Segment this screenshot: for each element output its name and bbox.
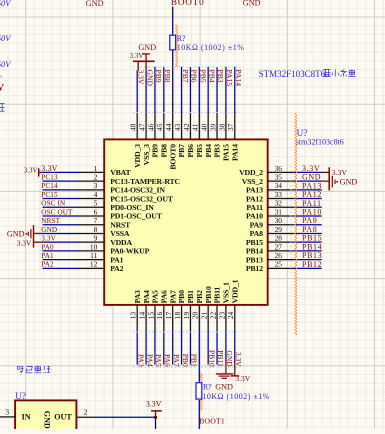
title CJK: zui xiao xi tong xyxy=(324,70,331,77)
pin 33 PA12 (right) wire+stub xyxy=(268,198,295,200)
svg-text:PA3: PA3 xyxy=(136,354,145,367)
svg-text:PB12: PB12 xyxy=(302,260,322,269)
svg-text:PA8: PA8 xyxy=(302,225,317,234)
pin 48 VDD_3 (top) wire+stub xyxy=(136,70,138,113)
svg-text:18: 18 xyxy=(173,312,182,320)
svg-text:21: 21 xyxy=(200,312,209,320)
pin 20 PB2 (bottom) wire+stub xyxy=(198,305,200,330)
svg-text:30: 30 xyxy=(275,216,283,225)
pin 7 NRST (left) wire+stub xyxy=(43,224,79,226)
svg-text:PB8: PB8 xyxy=(160,144,169,158)
op part: MCU body U? STM32F103C8T6 xyxy=(104,139,268,305)
svg-text:PC13-TAMPER-RTC: PC13-TAMPER-RTC xyxy=(110,177,180,186)
orange marker line (right pins) xyxy=(294,113,296,335)
svg-text:3.3V: 3.3V xyxy=(136,70,145,85)
svg-text:PA5: PA5 xyxy=(151,290,160,303)
svg-text:VSS_1: VSS_1 xyxy=(222,282,231,303)
svg-text:3.3V: 3.3V xyxy=(41,235,56,243)
svg-text:22: 22 xyxy=(208,312,217,320)
svg-text:39: 39 xyxy=(208,123,217,131)
svg-text:VDD_2: VDD_2 xyxy=(239,168,263,177)
pin 44 BOOT0 (top) wire+stub xyxy=(172,7,174,35)
svg-text:PA9: PA9 xyxy=(250,220,263,229)
svg-text:PA12: PA12 xyxy=(302,190,322,199)
dotted guide line (right labels) xyxy=(290,166,292,273)
svg-text:PC14-OSC32_IN: PC14-OSC32_IN xyxy=(110,186,165,195)
svg-text:GND: GND xyxy=(145,70,154,87)
svg-text:PA8: PA8 xyxy=(250,229,263,238)
pin 37 PA14 (top) wire+stub xyxy=(234,67,236,113)
svg-text:PB10: PB10 xyxy=(207,350,216,367)
svg-text:PB13: PB13 xyxy=(302,251,322,260)
dotted guide line (top wires) xyxy=(133,66,240,68)
svg-text:GND: GND xyxy=(215,383,233,392)
pin 1 VBAT (left) wire+stub xyxy=(43,171,79,173)
svg-text:PC13: PC13 xyxy=(41,174,58,182)
svg-text:3.3V: 3.3V xyxy=(332,168,348,177)
svg-text:PB13: PB13 xyxy=(246,255,263,264)
pin 24 VDD_1 (bottom) wire+stub xyxy=(234,305,236,330)
svg-text:29: 29 xyxy=(275,225,283,234)
svg-text:5: 5 xyxy=(94,199,98,208)
svg-text:PB1: PB1 xyxy=(190,354,199,367)
svg-text:NRST: NRST xyxy=(110,220,131,229)
svg-text:2: 2 xyxy=(84,408,88,417)
svg-text:37: 37 xyxy=(226,123,235,131)
svg-text:3.3V: 3.3V xyxy=(302,164,320,173)
svg-text:GND: GND xyxy=(43,411,52,429)
svg-text:PB3: PB3 xyxy=(213,144,222,158)
svg-text:43: 43 xyxy=(173,123,182,131)
svg-text:GND: GND xyxy=(86,0,104,8)
svg-text:BOOT0: BOOT0 xyxy=(168,144,177,170)
pin 38 PA15 (top) wire+stub xyxy=(225,67,227,113)
svg-text:VSS_2: VSS_2 xyxy=(242,177,263,186)
svg-text:46: 46 xyxy=(146,123,155,131)
svg-text:OUT: OUT xyxy=(54,413,72,422)
svg-text:VSS_3: VSS_3 xyxy=(142,144,151,165)
resistor R1 10K (BOOT0 pull) xyxy=(170,35,176,50)
power port GND (right) xyxy=(331,176,333,188)
power port 3.3V (regulator out) xyxy=(155,411,157,417)
orange marker (top resistor) xyxy=(175,25,177,68)
svg-text:PA7: PA7 xyxy=(172,354,181,367)
svg-text:3.3V: 3.3V xyxy=(235,374,250,383)
svg-text:14: 14 xyxy=(137,312,146,320)
pin 26 PB13 (right) wire+stub xyxy=(268,259,295,261)
svg-text:PA6: PA6 xyxy=(160,290,169,303)
svg-text:15: 15 xyxy=(146,312,155,320)
svg-text:PA2: PA2 xyxy=(41,261,54,269)
pin 2 PC13-TAMPER-RTC (left) wire+stub xyxy=(43,180,79,182)
svg-text:3: 3 xyxy=(94,181,98,190)
svg-text:16: 16 xyxy=(155,312,164,320)
pin 17 PA7 (bottom) wire+stub xyxy=(172,305,174,330)
svg-text:10KΩ (1002) ±1%: 10KΩ (1002) ±1% xyxy=(202,392,270,401)
pin 15 PA5 (bottom) wire+stub xyxy=(154,305,156,330)
pin 12 PA2 (left) wire+stub xyxy=(43,267,79,269)
svg-text:36: 36 xyxy=(275,164,283,173)
svg-text:GND: GND xyxy=(243,0,261,8)
svg-text:31: 31 xyxy=(275,207,283,216)
svg-text:3.3V: 3.3V xyxy=(234,352,243,367)
svg-text:2: 2 xyxy=(94,173,98,182)
svg-text:PB12: PB12 xyxy=(246,264,263,273)
pin 36 VDD_2 (right) wire+stub xyxy=(268,171,295,173)
pin 40 PB4 (top) wire+stub xyxy=(207,67,209,113)
regulator body xyxy=(15,400,76,433)
svg-text:PB4: PB4 xyxy=(207,70,216,83)
svg-text:R?: R? xyxy=(203,382,212,391)
svg-text:8: 8 xyxy=(94,225,98,234)
svg-text:PA6: PA6 xyxy=(163,354,172,367)
pin 35 VSS_2 (right) wire+stub xyxy=(268,180,295,182)
pin 11 PA1 (left) wire+stub xyxy=(43,259,79,261)
pin 3 PC14-OSC32_IN (left) wire+stub xyxy=(43,189,79,191)
svg-text:OSC OUT: OSC OUT xyxy=(41,208,73,216)
svg-text:26: 26 xyxy=(275,251,283,260)
power port 3.3V (right) xyxy=(328,167,330,190)
svg-text:42: 42 xyxy=(182,123,191,131)
pin 27 PB14 (right) wire+stub xyxy=(268,250,295,252)
svg-text:V: V xyxy=(0,83,4,94)
svg-text:40: 40 xyxy=(200,123,209,131)
svg-text:PA9: PA9 xyxy=(302,216,317,225)
svg-text:STM32F103C8T6: STM32F103C8T6 xyxy=(259,69,326,79)
svg-text:PB6: PB6 xyxy=(190,70,199,83)
svg-text:PA12: PA12 xyxy=(246,194,263,203)
svg-text:PB9: PB9 xyxy=(154,70,163,83)
svg-text:7: 7 xyxy=(94,216,98,225)
wire from regulator OUT xyxy=(96,416,156,418)
svg-text:PA14: PA14 xyxy=(234,70,243,87)
junction xyxy=(154,416,157,419)
svg-text:stm32f103c8t6: stm32f103c8t6 xyxy=(296,137,344,146)
dotted guide line (left of labels) xyxy=(39,166,41,273)
svg-text:28: 28 xyxy=(275,234,283,243)
svg-text:BOOT0: BOOT0 xyxy=(171,0,205,7)
pin 46 PB9 (top) wire+stub xyxy=(154,67,156,113)
svg-text:PA1: PA1 xyxy=(110,255,123,264)
svg-text:3.3V: 3.3V xyxy=(130,52,144,60)
svg-text:PB10: PB10 xyxy=(204,286,213,303)
svg-text:PC15: PC15 xyxy=(41,191,58,199)
svg-text:34: 34 xyxy=(275,181,283,190)
svg-text:GND: GND xyxy=(340,178,358,187)
pin 13 PA3 (bottom) wire+stub xyxy=(136,305,138,330)
pin 22 PB11 (bottom) wire+stub xyxy=(216,305,218,330)
svg-text:10KΩ (1002) ±1%: 10KΩ (1002) ±1% xyxy=(177,43,245,52)
svg-text:12: 12 xyxy=(90,260,98,269)
svg-text:PA2: PA2 xyxy=(110,264,123,273)
dotted guide line (top stubs) xyxy=(133,112,240,114)
pin 23 VSS_1 (bottom) wire+stub xyxy=(225,305,227,330)
pin 42 PB6 (top) wire+stub xyxy=(189,67,191,113)
power port 3.3V (bottom) xyxy=(231,375,240,377)
svg-text:PB15: PB15 xyxy=(246,238,263,247)
svg-text:PA3: PA3 xyxy=(133,290,142,303)
svg-text:32: 32 xyxy=(275,199,283,208)
svg-text:3.3V: 3.3V xyxy=(146,399,162,408)
svg-text:23: 23 xyxy=(217,312,226,320)
pin 34 PA13 (right) wire+stub xyxy=(268,189,295,191)
svg-text:U?: U? xyxy=(15,391,26,401)
svg-text:PB7: PB7 xyxy=(181,70,190,83)
pin 28 PB15 (right) wire+stub xyxy=(268,241,295,243)
svg-text:27: 27 xyxy=(275,242,283,251)
svg-text:PB4: PB4 xyxy=(204,144,213,158)
svg-text:19: 19 xyxy=(182,312,191,320)
svg-text:4: 4 xyxy=(94,190,98,199)
pin 41 PB5 (top) wire+stub xyxy=(198,67,200,113)
svg-text:24: 24 xyxy=(226,312,235,320)
svg-text:PA1: PA1 xyxy=(41,252,54,260)
resistor R2 10K (BOOT1 pull) xyxy=(196,383,202,399)
svg-text:PA0: PA0 xyxy=(41,243,54,251)
svg-text:PA4: PA4 xyxy=(145,354,154,367)
svg-text:3.3V: 3.3V xyxy=(24,166,38,174)
svg-text:OSC IN: OSC IN xyxy=(41,200,66,208)
svg-text:PB15: PB15 xyxy=(302,234,322,243)
svg-text:PA10: PA10 xyxy=(246,212,263,221)
pin 8 VSSA (left) wire+stub xyxy=(43,232,79,234)
pin 45 PB8 (top) wire+stub xyxy=(163,67,165,113)
pin 30 PA9 (right) wire+stub xyxy=(268,224,295,226)
svg-text:PB11: PB11 xyxy=(213,287,222,304)
svg-text:3.3V: 3.3V xyxy=(41,164,57,173)
svg-text:PB0: PB0 xyxy=(181,354,190,367)
orange marker (bottom resistor) xyxy=(200,373,202,410)
pin 10 PA0-WKUP (left) wire+stub xyxy=(43,250,79,252)
svg-text:PB14: PB14 xyxy=(302,242,322,251)
pin 16 PA6 (bottom) wire+stub xyxy=(163,305,165,330)
svg-text:3.3V: 3.3V xyxy=(17,238,32,247)
pin 9 VDDA (left) wire+stub xyxy=(43,241,79,243)
svg-text:PA13: PA13 xyxy=(302,181,322,190)
cut-off marks left edge xyxy=(0,75,2,78)
svg-text:PB14: PB14 xyxy=(246,247,263,256)
svg-text:PA11: PA11 xyxy=(246,203,263,212)
svg-text:PB5: PB5 xyxy=(198,70,207,83)
svg-text:VDD_3: VDD_3 xyxy=(133,144,142,168)
svg-text:PA4: PA4 xyxy=(142,290,151,303)
pin 3 IN (regulator) xyxy=(0,416,15,418)
svg-text:1: 1 xyxy=(94,164,98,173)
svg-text:38: 38 xyxy=(217,123,226,131)
svg-text:GND: GND xyxy=(302,173,321,182)
svg-text:PA14: PA14 xyxy=(230,144,239,161)
pin 19 PB1 (bottom) wire+stub xyxy=(189,305,191,330)
svg-text:IN: IN xyxy=(22,413,31,422)
svg-text:50V: 50V xyxy=(0,0,11,8)
svg-text:PB11: PB11 xyxy=(216,350,225,367)
svg-text:R?: R? xyxy=(177,34,186,43)
svg-text:17: 17 xyxy=(164,312,173,320)
svg-text:PB8: PB8 xyxy=(163,70,172,83)
wire down from junction xyxy=(155,417,157,429)
svg-text:35: 35 xyxy=(275,173,283,182)
dotted guide line (bottom wire ends) xyxy=(133,366,240,368)
svg-text:PB5: PB5 xyxy=(195,144,204,158)
svg-text:PA7: PA7 xyxy=(168,290,177,303)
svg-text:VDD_1: VDD_1 xyxy=(230,279,239,303)
svg-text:6: 6 xyxy=(94,207,98,216)
svg-text:PB7: PB7 xyxy=(177,144,186,158)
svg-text:GND: GND xyxy=(138,43,156,52)
svg-text:PA15: PA15 xyxy=(222,144,231,161)
power ground GND (bottom) xyxy=(216,373,233,375)
dotted guide line (bottom stubs) xyxy=(133,331,240,333)
pin 47 VSS_3 (top) wire+stub xyxy=(145,70,147,113)
svg-text:GND: GND xyxy=(41,226,57,234)
svg-text:41: 41 xyxy=(191,123,200,131)
svg-text:PD1-OSC_OUT: PD1-OSC_OUT xyxy=(110,212,163,221)
pin 31 PA10 (right) wire+stub xyxy=(268,215,295,217)
svg-text:PA0-WKUP: PA0-WKUP xyxy=(110,247,149,256)
pin 39 PB3 (top) wire+stub xyxy=(216,67,218,113)
svg-text:GND: GND xyxy=(225,350,234,367)
title step-down circuit CJK xyxy=(17,367,23,373)
pin 6 PD1-OSC_OUT (left) wire+stub xyxy=(43,215,79,217)
svg-text:PB0: PB0 xyxy=(177,290,186,304)
svg-text:VDDA: VDDA xyxy=(110,238,132,247)
svg-text:PA15: PA15 xyxy=(225,70,234,87)
svg-text:PB3: PB3 xyxy=(216,70,225,83)
pin 29 PA8 (right) wire+stub xyxy=(268,232,295,234)
svg-text:BOOT1: BOOT1 xyxy=(199,417,225,426)
svg-text:PD0-OSC_IN: PD0-OSC_IN xyxy=(110,203,154,212)
svg-text:10: 10 xyxy=(90,242,98,251)
svg-text:PC14: PC14 xyxy=(41,182,58,190)
pin 14 PA4 (bottom) wire+stub xyxy=(145,305,147,330)
svg-text:VBAT: VBAT xyxy=(110,168,131,177)
svg-text:48: 48 xyxy=(129,123,138,131)
svg-text:VSSA: VSSA xyxy=(110,229,130,238)
svg-text:GND: GND xyxy=(7,229,25,238)
svg-text:33: 33 xyxy=(275,190,283,199)
svg-text:44: 44 xyxy=(164,123,173,131)
svg-text:PA11: PA11 xyxy=(302,199,322,208)
svg-text:PA5: PA5 xyxy=(154,354,163,367)
pin 5 PD0-OSC_IN (left) wire+stub xyxy=(43,206,79,208)
svg-text:NRST: NRST xyxy=(41,217,60,225)
pin 25 PB12 (right) wire+stub xyxy=(268,267,295,269)
svg-text:47: 47 xyxy=(137,123,146,131)
cut-off character (left edge) xyxy=(0,104,5,112)
svg-text:11: 11 xyxy=(90,251,97,260)
pin 21 PB10 (bottom) wire+stub xyxy=(207,305,209,330)
svg-text:3: 3 xyxy=(5,407,9,416)
svg-text:25: 25 xyxy=(275,260,283,269)
svg-text:PB1: PB1 xyxy=(186,290,195,304)
pin 4 PC15-OSC32_OUT (left) wire+stub xyxy=(43,198,79,200)
svg-text:PB6: PB6 xyxy=(186,144,195,158)
svg-text:PA13: PA13 xyxy=(246,186,263,195)
svg-text:13: 13 xyxy=(129,312,138,320)
svg-text:20: 20 xyxy=(191,312,200,320)
svg-text:PA10: PA10 xyxy=(302,208,322,217)
svg-text:PC15-OSC32_OUT: PC15-OSC32_OUT xyxy=(110,194,174,203)
svg-text:9: 9 xyxy=(94,234,98,243)
pin 32 PA11 (right) wire+stub xyxy=(268,206,295,208)
pin 43 PB7 (top) wire+stub xyxy=(181,67,183,113)
svg-text:PB2: PB2 xyxy=(195,290,204,304)
svg-text:50V: 50V xyxy=(0,34,11,43)
svg-text:PB9: PB9 xyxy=(151,144,160,158)
pin 18 PB0 (bottom) wire+stub xyxy=(181,305,183,330)
svg-text:45: 45 xyxy=(155,123,164,131)
svg-text:50V: 50V xyxy=(0,60,11,69)
